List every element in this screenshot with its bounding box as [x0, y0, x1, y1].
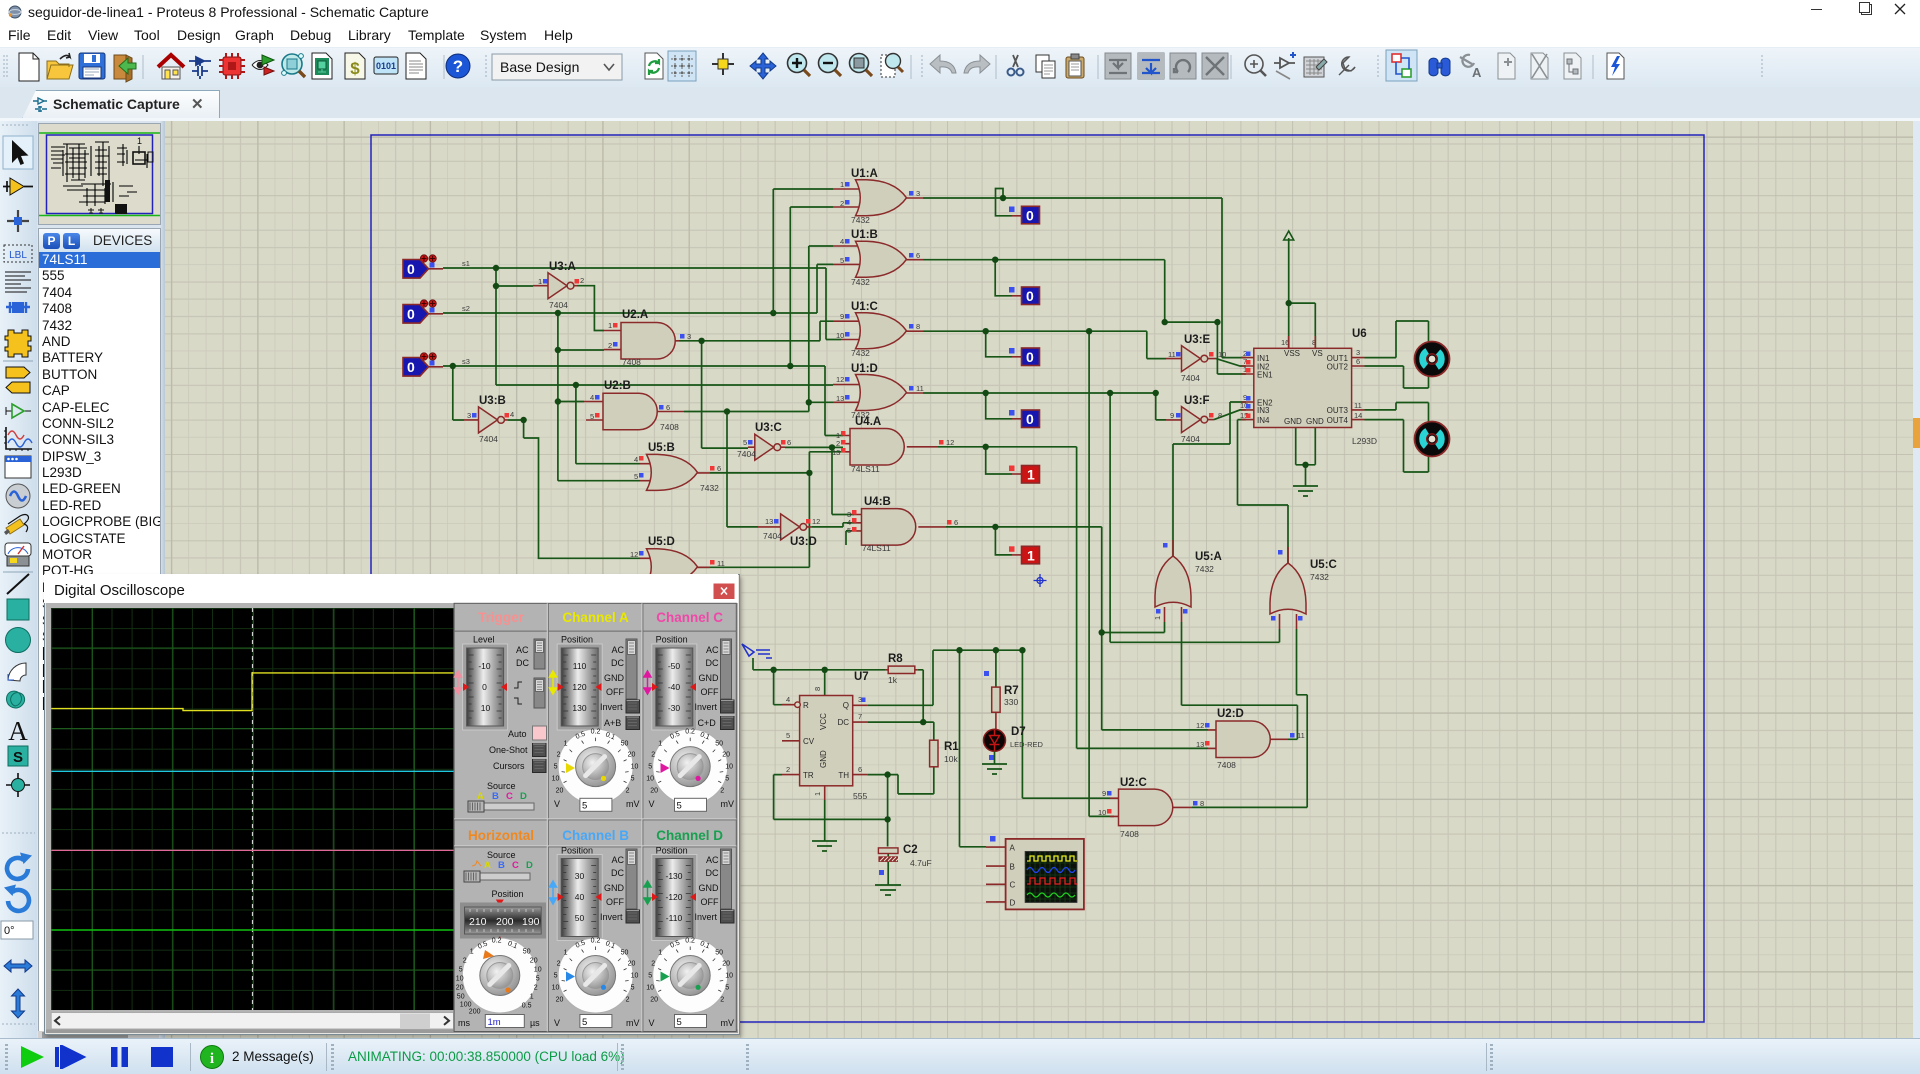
svg-text:Invert: Invert [695, 702, 718, 712]
svg-text:A: A [477, 791, 484, 802]
wire s3 net [443, 207, 843, 436]
scope interface block [986, 836, 1084, 909]
svg-text:V: V [649, 799, 655, 809]
svg-text:Q: Q [843, 701, 849, 710]
svg-text:3: 3 [467, 411, 471, 420]
svg-text:IN3: IN3 [1257, 406, 1270, 415]
origin [712, 53, 734, 75]
svg-text:-10: -10 [478, 661, 491, 671]
svg-text:C: C [1010, 881, 1016, 890]
svg-text:7408: 7408 [1217, 760, 1236, 770]
svg-text:7432: 7432 [700, 483, 719, 493]
devices panel [38, 228, 161, 254]
ground under C2 [875, 885, 901, 895]
svg-text:DC: DC [706, 658, 719, 668]
svg-text:i: i [210, 1051, 214, 1067]
svg-text:Channel B: Channel B [562, 828, 629, 843]
svg-text:2: 2 [840, 199, 844, 208]
wire U5:B out / U5:D out to U4:A [697, 452, 843, 568]
svg-text:7432: 7432 [851, 215, 870, 225]
svg-text:AC: AC [706, 855, 719, 865]
svg-text:10k: 10k [944, 754, 958, 764]
wire U2:B out net [684, 246, 833, 527]
svg-text:U2:D: U2:D [1217, 708, 1244, 720]
svg-text:mV: mV [626, 1018, 640, 1028]
svg-text:6: 6 [1356, 357, 1360, 366]
svg-text:13: 13 [765, 517, 773, 526]
wire motor1 [1365, 321, 1429, 388]
svg-text:U5:D: U5:D [648, 536, 675, 548]
svg-text:U2.A: U2.A [622, 309, 648, 321]
svg-text:C: C [506, 791, 513, 802]
svg-text:$: $ [350, 59, 360, 78]
wire s1 to U1:D pin12 [496, 385, 833, 464]
svg-text:DC: DC [516, 658, 529, 668]
svg-text:A+B: A+B [604, 718, 621, 728]
svg-text:11: 11 [916, 384, 924, 393]
svg-text:R1: R1 [944, 741, 959, 753]
wire R8 right to DC [867, 670, 934, 740]
svg-text:10: 10 [836, 331, 844, 340]
svg-text:8: 8 [813, 687, 822, 691]
minimap / overview [38, 123, 161, 225]
svg-text:U3:D: U3:D [790, 536, 817, 548]
svg-text:B: B [492, 791, 499, 802]
svg-text:7432: 7432 [1195, 564, 1214, 574]
svg-text:-120: -120 [665, 892, 682, 902]
svg-text:One-Shot: One-Shot [489, 745, 528, 755]
svg-text:5: 5 [634, 472, 638, 481]
svg-text:-40: -40 [668, 682, 681, 692]
svg-text:A: A [484, 860, 491, 871]
ic U7 555 [782, 671, 869, 801]
svg-text:10: 10 [1218, 350, 1226, 359]
svg-text:11: 11 [1354, 401, 1362, 410]
svg-text:9: 9 [1102, 789, 1106, 798]
svg-text:U3:F: U3:F [1184, 395, 1210, 407]
logicstate S3 [403, 353, 470, 376]
svg-text:1: 1 [1027, 547, 1035, 563]
svg-text:OFF: OFF [606, 897, 624, 907]
svg-text:7: 7 [858, 712, 862, 721]
svg-text:AC: AC [611, 855, 624, 865]
svg-text:8: 8 [1218, 411, 1222, 420]
zoom in/out/region/area [788, 54, 811, 77]
wire U2:D out to U5:A pin2 [1182, 622, 1298, 739]
svg-text:TH: TH [838, 771, 849, 780]
svg-text:U5:C: U5:C [1310, 559, 1337, 571]
svg-text:4.7uF: 4.7uF [910, 858, 932, 868]
svg-text:C2: C2 [903, 844, 918, 856]
svg-text:R: R [803, 701, 809, 710]
wire U3:B out net [508, 420, 640, 558]
svg-text:14: 14 [1354, 411, 1362, 420]
svg-text:Channel D: Channel D [656, 828, 723, 843]
svg-text:0: 0 [482, 682, 487, 692]
svg-text:Source: Source [487, 781, 516, 791]
svg-text:OFF: OFF [701, 897, 719, 907]
svg-text:-110: -110 [666, 913, 683, 923]
svg-text:-30: -30 [668, 703, 681, 713]
wire U1:C out net [923, 331, 1166, 816]
svg-text:330: 330 [1004, 697, 1018, 707]
010 box [374, 57, 398, 74]
grey block ops [1105, 53, 1131, 79]
or-gate U5:B [634, 442, 721, 493]
cut copy paste [1008, 55, 1024, 76]
pan [750, 53, 776, 79]
svg-text:0°: 0° [4, 925, 15, 937]
text doc [406, 53, 426, 79]
svg-text:OFF: OFF [701, 687, 719, 697]
svg-text:12: 12 [946, 438, 954, 447]
svg-text:Invert: Invert [600, 702, 623, 712]
inverter U3:C [737, 422, 791, 460]
svg-text:9: 9 [840, 312, 844, 321]
svg-text:2: 2 [580, 276, 584, 285]
resistor R7 [984, 671, 1019, 729]
component [189, 57, 211, 79]
svg-text:120: 120 [572, 682, 586, 692]
svg-text:-130: -130 [665, 871, 682, 881]
svg-text:A: A [1010, 844, 1016, 853]
svg-text:7432: 7432 [851, 348, 870, 358]
or-gate U5:A (vertical) [1153, 540, 1222, 622]
svg-text:AC: AC [706, 645, 719, 655]
svg-text:0: 0 [1026, 208, 1034, 224]
svg-text:D: D [520, 791, 527, 802]
svg-text:0: 0 [1026, 411, 1034, 427]
wire s2 net [443, 264, 833, 480]
or-gate U1:C [833, 301, 923, 358]
svg-text:7404: 7404 [1181, 434, 1200, 444]
svg-text:U4.A: U4.A [855, 416, 881, 428]
wire U4:B out net [946, 527, 1208, 730]
bom $ [345, 53, 365, 79]
svg-text:U6: U6 [1352, 328, 1367, 340]
svg-text:CV: CV [803, 737, 815, 746]
wire motor2 [1365, 403, 1429, 473]
wire s2 to U1:A pin1 [773, 189, 833, 313]
svg-text:V: V [554, 1018, 560, 1028]
svg-text:1: 1 [813, 792, 822, 796]
and-gate U2:D [1196, 708, 1305, 770]
svg-text:AC: AC [611, 645, 624, 655]
svg-text:DC: DC [611, 868, 624, 878]
svg-text:D: D [1010, 899, 1016, 908]
svg-text:GND: GND [604, 883, 625, 893]
inverter U3:A [533, 261, 584, 310]
svg-text:2: 2 [786, 765, 790, 774]
sheet border [371, 135, 1704, 1022]
design explorer (active) [1386, 50, 1417, 81]
svg-text:B: B [1010, 863, 1015, 872]
svg-text:6: 6 [954, 518, 958, 527]
svg-text:7404: 7404 [737, 449, 756, 459]
svg-text:13: 13 [836, 394, 844, 403]
svg-text:VCC: VCC [819, 713, 828, 730]
svg-text:50: 50 [575, 913, 585, 923]
svg-text:5: 5 [840, 256, 844, 265]
svg-text:AC: AC [516, 645, 529, 655]
wire U1:D out net [923, 393, 1280, 642]
wire U5:C out to EN1 [1238, 420, 1289, 563]
wire L293D power [1289, 247, 1316, 348]
svg-text:GND: GND [819, 750, 828, 768]
resistor R1 [930, 740, 960, 767]
inverter U3:F [1153, 390, 1223, 444]
oscilloscope probe terminal [742, 644, 772, 670]
svg-text:VS: VS [1312, 349, 1323, 358]
svg-text:U1:D: U1:D [851, 363, 878, 375]
svg-text:Invert: Invert [695, 912, 718, 922]
chip red [219, 53, 245, 79]
svg-text:200: 200 [496, 916, 514, 928]
wire U1:B out net [923, 260, 1246, 374]
svg-text:40: 40 [575, 892, 585, 902]
svg-text:U1:C: U1:C [851, 301, 878, 313]
trace B cyan [51, 770, 453, 772]
motor M1 [1415, 342, 1450, 377]
svg-text:6: 6 [666, 403, 670, 412]
svg-text:R7: R7 [1004, 685, 1019, 697]
svg-text:4: 4 [786, 695, 790, 704]
svg-text:13: 13 [832, 448, 840, 457]
pcb doc [312, 53, 332, 79]
magnify chip [282, 54, 305, 77]
wire L293D gnd [1296, 428, 1316, 487]
svg-text:s2: s2 [462, 304, 470, 313]
lightning [1607, 53, 1624, 79]
svg-text:10: 10 [481, 703, 491, 713]
logicstate S1 [403, 255, 470, 278]
svg-text:EN1: EN1 [1257, 371, 1273, 380]
svg-text:5: 5 [582, 801, 587, 812]
svg-text:U1:B: U1:B [851, 229, 878, 241]
svg-text:Level: Level [473, 635, 495, 645]
or-gate U1:D [833, 363, 924, 420]
doc add/del/net [1498, 53, 1515, 79]
svg-text:7404: 7404 [549, 300, 568, 310]
wire U3:D out to U4:B pin4 [812, 523, 854, 527]
svg-text:7408: 7408 [1120, 829, 1139, 839]
grid toggle (pressed) [668, 51, 696, 81]
svg-text:OFF: OFF [606, 687, 624, 697]
led D7 [984, 726, 1044, 764]
trace D green [51, 929, 453, 931]
close/import [114, 55, 136, 82]
svg-text:1: 1 [137, 136, 142, 146]
wire U3:E out to IN2 (diagonal) [1216, 359, 1246, 366]
inverter U3:B [464, 395, 514, 444]
svg-text:C: C [512, 860, 519, 871]
scroll bar [51, 1013, 453, 1030]
svg-text:7432: 7432 [1310, 572, 1329, 582]
svg-text:V: V [649, 1018, 655, 1028]
svg-text:DC: DC [611, 658, 624, 668]
svg-text:mV: mV [721, 799, 735, 809]
svg-text:mV: mV [626, 799, 640, 809]
svg-text:110: 110 [573, 661, 587, 671]
svg-text:U3:B: U3:B [479, 395, 506, 407]
logicprobe P6 (1) [1009, 546, 1040, 564]
svg-text:Trigger: Trigger [478, 610, 525, 625]
svg-text:U3:E: U3:E [1184, 334, 1211, 346]
svg-text:LBL: LBL [9, 250, 27, 261]
svg-text:U2:B: U2:B [604, 380, 631, 392]
svg-text:5: 5 [677, 1017, 682, 1028]
svg-text:7432: 7432 [851, 277, 870, 287]
combo [492, 54, 622, 80]
and3-gate U4:A [832, 416, 954, 474]
svg-text:7408: 7408 [622, 357, 641, 367]
svg-text:ms: ms [458, 1018, 470, 1028]
svg-text:U3:C: U3:C [755, 422, 782, 434]
wire U3:F out to IN3 (diagonal) [1214, 410, 1246, 420]
save [79, 53, 105, 79]
svg-text:C+D: C+D [698, 718, 717, 728]
and-gate U2:B [584, 380, 684, 432]
control panel [454, 603, 736, 1031]
svg-text:1: 1 [538, 277, 542, 286]
logicprobe P5 (1) [1009, 466, 1040, 484]
trace A yellow [51, 673, 453, 711]
svg-text:6: 6 [717, 464, 721, 473]
svg-text:3: 3 [687, 332, 691, 341]
svg-text:Source: Source [487, 850, 516, 860]
svg-text:-50: -50 [668, 661, 681, 671]
svg-text:Invert: Invert [600, 912, 623, 922]
wire U3:A out to U2:A pin1 [577, 286, 604, 331]
svg-text:1: 1 [608, 321, 612, 330]
svg-text:L293D: L293D [1352, 436, 1377, 446]
svg-text:s1: s1 [462, 259, 470, 268]
svg-text:3: 3 [916, 189, 920, 198]
ground under L293D [1293, 486, 1318, 496]
logicprobe P3 (0) [1009, 348, 1040, 366]
svg-text:B: B [498, 860, 505, 871]
wire U2:C out to U5:C pin10 [1192, 629, 1307, 807]
svg-text:GND: GND [1306, 417, 1324, 426]
logicprobe P4 (0) [1009, 410, 1040, 428]
svg-text:12: 12 [1196, 721, 1204, 730]
wire U2:A out net [679, 321, 833, 448]
svg-text:Channel A: Channel A [562, 610, 629, 625]
svg-text:OUT3: OUT3 [1327, 406, 1349, 415]
logicprobe P2 (0) [1009, 287, 1040, 305]
wire U3:C out net [785, 447, 854, 514]
svg-text:11: 11 [1168, 350, 1176, 359]
svg-text:6: 6 [787, 438, 791, 447]
svg-text:1k: 1k [888, 675, 898, 685]
svg-text:GND: GND [699, 883, 720, 893]
open [47, 53, 73, 79]
svg-text:R8: R8 [888, 653, 903, 665]
svg-text:U5:A: U5:A [1195, 551, 1222, 563]
svg-text:4: 4 [840, 237, 844, 246]
wire U5:A out to EN2 [1173, 402, 1246, 556]
svg-text:Position: Position [656, 635, 688, 645]
refresh doc [645, 53, 663, 79]
resistor R8 [885, 653, 917, 685]
svg-text:5: 5 [743, 438, 747, 447]
ic U6 L293D [1240, 328, 1377, 446]
svg-text:D: D [526, 860, 533, 871]
svg-text:130: 130 [572, 703, 586, 713]
wire 555 Q rail [867, 650, 1110, 847]
svg-text:5: 5 [590, 412, 594, 421]
svg-text:3: 3 [1356, 348, 1360, 357]
svg-text:4: 4 [590, 393, 594, 402]
svg-text:VSS: VSS [1284, 349, 1300, 358]
ground under D7 [982, 764, 1007, 774]
wire U4:A out net [938, 447, 1208, 749]
svg-text:8: 8 [1200, 799, 1204, 808]
svg-text:10: 10 [1098, 808, 1106, 817]
svg-text:A: A [8, 716, 28, 746]
motor M2 [1415, 422, 1450, 457]
svg-text:4: 4 [510, 410, 514, 419]
svg-text:IN4: IN4 [1257, 416, 1270, 425]
svg-text:D7: D7 [1011, 726, 1026, 738]
new [19, 53, 39, 81]
svg-text:0: 0 [1026, 288, 1034, 304]
svg-text:11: 11 [1297, 731, 1305, 740]
svg-text:2: 2 [608, 341, 612, 350]
wire U1:A out net [923, 189, 1246, 358]
inverter U3:D [758, 514, 820, 548]
binoculars [1429, 58, 1450, 76]
undo/redo (grey) [930, 55, 956, 73]
and-gate U2:A [604, 309, 691, 367]
svg-text:GND: GND [1284, 417, 1302, 426]
svg-text:74LS11: 74LS11 [862, 543, 891, 553]
svg-text:Cursors: Cursors [493, 761, 525, 771]
svg-text:7404: 7404 [763, 531, 782, 541]
wire U4:B pin5 stub feed [846, 531, 854, 545]
svg-text:5: 5 [677, 801, 682, 812]
and3-gate U4:B [847, 496, 958, 553]
svg-text:1: 1 [1027, 467, 1035, 483]
window title [44, 574, 738, 603]
svg-text:7404: 7404 [1181, 373, 1200, 383]
svg-text:?: ? [453, 57, 463, 76]
or-gate U1:A [833, 168, 923, 225]
trace C pink [51, 849, 453, 851]
svg-text:0: 0 [407, 306, 415, 322]
svg-text:0101: 0101 [376, 61, 396, 71]
svg-text:LED-RED: LED-RED [1010, 740, 1044, 749]
and-gate U2:C [1098, 777, 1204, 839]
svg-text:DC: DC [837, 718, 849, 727]
svg-text:12: 12 [812, 517, 820, 526]
svg-text:s3: s3 [462, 357, 470, 366]
svg-text:A: A [1472, 65, 1482, 80]
svg-text:U5:B: U5:B [648, 442, 675, 454]
eye component [252, 55, 274, 75]
svg-text:Auto: Auto [508, 729, 527, 739]
svg-text:74LS11: 74LS11 [851, 464, 880, 474]
svg-text:S: S [13, 749, 23, 766]
svg-text:2: 2 [836, 439, 840, 448]
node s1 junctions [493, 265, 499, 271]
svg-text:0: 0 [407, 261, 415, 277]
capacitor C2 [878, 844, 931, 885]
svg-text:8: 8 [916, 322, 920, 331]
svg-text:11: 11 [717, 559, 725, 568]
svg-text:V: V [554, 799, 560, 809]
svg-text:1m: 1m [488, 1017, 501, 1028]
